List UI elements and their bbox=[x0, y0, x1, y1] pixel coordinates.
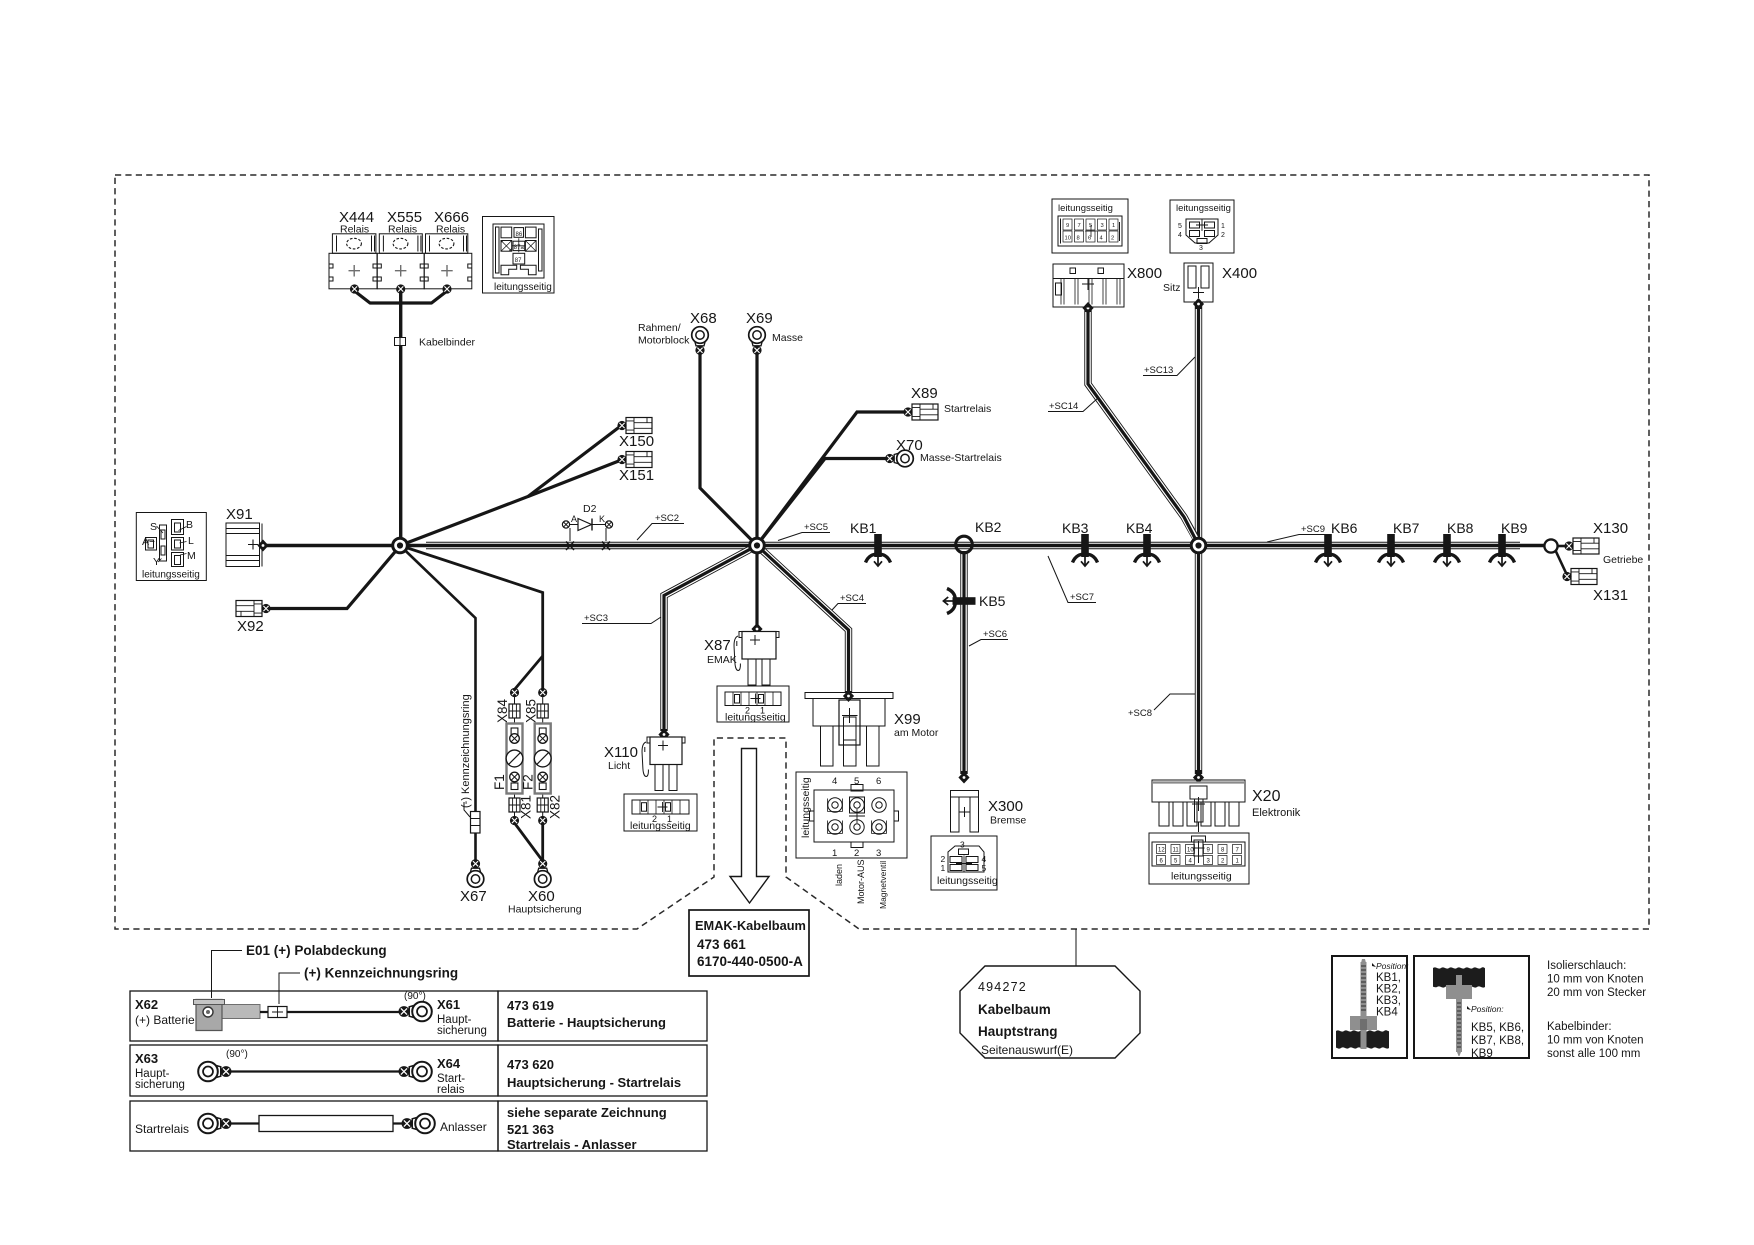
svg-text:5: 5 bbox=[1089, 223, 1092, 229]
svg-text:X84: X84 bbox=[495, 698, 510, 723]
node bolt X85 bbox=[538, 688, 547, 697]
svg-text:leitungsseitig: leitungsseitig bbox=[1058, 203, 1113, 214]
legend leader Kennzeichnungsring bbox=[279, 973, 300, 1004]
relay pinout detail box leitungsseitig bbox=[483, 217, 555, 294]
svg-text:sonst alle 100 mm: sonst alle 100 mm bbox=[1547, 1048, 1640, 1060]
node X130 X131 split bbox=[1544, 539, 1557, 552]
svg-text:(-) Kennzeichnungsring: (-) Kennzeichnungsring bbox=[460, 694, 472, 808]
connector X87 EMAK bbox=[739, 632, 779, 686]
svg-text:A: A bbox=[142, 536, 149, 548]
svg-text:F1: F1 bbox=[492, 774, 507, 790]
svg-text:+SC3: +SC3 bbox=[584, 613, 608, 624]
wire Hauptsicherung-Startrelais bbox=[224, 1070, 405, 1072]
wire X70 to hub bbox=[757, 459, 886, 546]
svg-text:X99: X99 bbox=[894, 711, 921, 728]
svg-text:KB7, KB8,: KB7, KB8, bbox=[1471, 1035, 1524, 1047]
svg-text:Anlasser: Anlasser bbox=[440, 1120, 487, 1134]
svg-text:8: 8 bbox=[1077, 236, 1080, 242]
svg-text:Relais: Relais bbox=[388, 224, 417, 236]
svg-text:leitungsseitig: leitungsseitig bbox=[1176, 203, 1231, 214]
wire branch to X84 bbox=[515, 656, 543, 690]
svg-text:6: 6 bbox=[876, 776, 881, 787]
branch KB3 bbox=[1073, 534, 1098, 566]
svg-text:A: A bbox=[571, 514, 577, 524]
svg-text:Position:: Position: bbox=[1471, 1004, 1504, 1014]
svg-text:Kabelbinder: Kabelbinder bbox=[419, 337, 476, 349]
node bolt X666 bbox=[442, 284, 451, 293]
connector X91 bbox=[226, 523, 262, 567]
connector X150 bbox=[617, 418, 652, 434]
svg-text:EMAK: EMAK bbox=[707, 654, 737, 666]
svg-text:Rahmen/: Rahmen/ bbox=[638, 322, 681, 334]
svg-text:12: 12 bbox=[1158, 848, 1165, 854]
pinout detail box X91 leitungsseitig bbox=[136, 513, 206, 581]
wire X444 to X555 node bbox=[355, 291, 400, 303]
svg-text:10 mm von Knoten: 10 mm von Knoten bbox=[1547, 974, 1644, 986]
svg-text:KB4: KB4 bbox=[1376, 1007, 1398, 1019]
svg-text:3: 3 bbox=[1199, 245, 1203, 252]
svg-text:KB1: KB1 bbox=[850, 520, 877, 536]
ring terminal X60 Hauptsicherung bbox=[534, 859, 551, 887]
svg-text:F2: F2 bbox=[521, 774, 536, 790]
svg-text:Relais: Relais bbox=[340, 224, 369, 236]
svg-text:X63: X63 bbox=[135, 1051, 158, 1066]
connector X400 Sitz bbox=[1184, 263, 1213, 302]
svg-text:20 mm von Stecker: 20 mm von Stecker bbox=[1547, 987, 1646, 999]
connector X130 bbox=[1564, 538, 1599, 554]
svg-text:KB8: KB8 bbox=[1447, 520, 1474, 536]
svg-text:KB7: KB7 bbox=[1393, 520, 1420, 536]
svg-text:KB6: KB6 bbox=[1331, 520, 1358, 536]
svg-text:3: 3 bbox=[960, 840, 965, 850]
sleeve wire hub to X20 +SC8 bbox=[1195, 550, 1202, 774]
svg-text:494272: 494272 bbox=[978, 980, 1027, 994]
ring marker on wire bbox=[260, 1011, 404, 1013]
diode D2 bbox=[562, 519, 612, 551]
connector X300 Bremse bbox=[951, 791, 979, 833]
svg-text:Hauptsicherung: Hauptsicherung bbox=[508, 904, 582, 916]
svg-text:siehe separate Zeichnung: siehe separate Zeichnung bbox=[507, 1105, 667, 1120]
seal clip X110 bbox=[642, 742, 648, 777]
svg-text:473 661: 473 661 bbox=[697, 937, 746, 952]
svg-text:Startrelais - Anlasser: Startrelais - Anlasser bbox=[507, 1137, 637, 1152]
svg-text:9: 9 bbox=[1066, 223, 1069, 229]
svg-text:X85: X85 bbox=[524, 699, 539, 723]
svg-text:+SC5: +SC5 bbox=[804, 522, 828, 533]
svg-text:E01 (+) Polabdeckung: E01 (+) Polabdeckung bbox=[246, 943, 387, 958]
svg-text:S: S bbox=[150, 521, 157, 533]
svg-text:KB3,: KB3, bbox=[1376, 995, 1401, 1007]
connector X20 Elektronik bbox=[1152, 780, 1245, 832]
wire hub to fuse branch bbox=[400, 546, 543, 690]
wire X69 through hub to X87 bbox=[755, 354, 758, 626]
svg-text:leitungsseitig: leitungsseitig bbox=[937, 875, 998, 887]
sleeve wire to X99 +SC4 bbox=[757, 546, 849, 694]
svg-text:K: K bbox=[599, 514, 605, 524]
legend row2 box bbox=[130, 1045, 498, 1096]
branch KB4 bbox=[1135, 534, 1160, 566]
connector X82 bbox=[537, 798, 548, 812]
svg-text:B: B bbox=[186, 519, 193, 531]
connector X99 am Motor bbox=[805, 693, 893, 767]
svg-text:X64: X64 bbox=[437, 1056, 461, 1071]
dashed harness boundary bbox=[115, 175, 1649, 929]
node X87 bbox=[751, 623, 762, 635]
svg-text:Kabelbinder:: Kabelbinder: bbox=[1547, 1021, 1612, 1033]
connector X110 Licht bbox=[647, 737, 685, 791]
battery terminal X62 bbox=[194, 1000, 261, 1031]
connector X800 bbox=[1053, 264, 1124, 307]
svg-text:Elektronik: Elektronik bbox=[1252, 807, 1301, 819]
svg-text:Hauptsicherung - Startrelais: Hauptsicherung - Startrelais bbox=[507, 1075, 681, 1090]
wire Startrelais-Anlasser bbox=[224, 1122, 408, 1124]
svg-text:leitungsseitig: leitungsseitig bbox=[1171, 871, 1232, 883]
svg-text:+SC14: +SC14 bbox=[1049, 401, 1078, 412]
svg-text:KB4: KB4 bbox=[1126, 520, 1153, 536]
node right hub bbox=[1191, 538, 1206, 553]
svg-text:+SC13: +SC13 bbox=[1144, 365, 1173, 376]
pinout detail box X87 leitungsseitig bbox=[717, 686, 789, 722]
node bolt X84 bbox=[510, 688, 519, 697]
pinout detail box X800 leitungsseitig bbox=[1052, 199, 1128, 253]
branch KB5 bbox=[943, 589, 975, 614]
svg-text:Licht: Licht bbox=[608, 760, 630, 772]
svg-text:Y: Y bbox=[153, 556, 160, 568]
sleeve wire to X110 +SC3 bbox=[664, 546, 757, 732]
svg-text:KB2: KB2 bbox=[975, 519, 1002, 535]
svg-text:M: M bbox=[187, 550, 196, 562]
svg-text:Bremse: Bremse bbox=[990, 815, 1026, 827]
svg-text:521 363: 521 363 bbox=[507, 1122, 554, 1137]
svg-text:am Motor: am Motor bbox=[894, 727, 939, 739]
svg-text:X400: X400 bbox=[1222, 265, 1257, 282]
svg-text:D2: D2 bbox=[583, 503, 597, 515]
node KB2 bbox=[956, 536, 973, 553]
svg-text:10: 10 bbox=[1187, 848, 1194, 854]
fuse F2 bbox=[542, 718, 544, 798]
svg-text:2: 2 bbox=[1221, 232, 1225, 239]
svg-text:Isolierschlauch:: Isolierschlauch: bbox=[1547, 960, 1626, 972]
cable tie symbol Kabelbinder bbox=[395, 338, 406, 346]
connector X151 bbox=[617, 452, 652, 468]
wire hub to X67 bbox=[400, 546, 476, 862]
pinout detail box X20 leitungsseitig bbox=[1149, 833, 1249, 884]
svg-text:KB1,: KB1, bbox=[1376, 972, 1401, 984]
svg-text:X81: X81 bbox=[519, 795, 534, 819]
svg-text:X70: X70 bbox=[896, 437, 923, 454]
svg-text:87: 87 bbox=[515, 258, 522, 264]
svg-text:+SC9: +SC9 bbox=[1301, 524, 1325, 535]
wire X89 to hub bbox=[757, 412, 908, 545]
svg-text:X68: X68 bbox=[690, 310, 717, 327]
ring terminal Startrelais bbox=[198, 1114, 231, 1134]
svg-text:sicherung: sicherung bbox=[135, 1079, 185, 1091]
svg-text:6170-440-0500-A: 6170-440-0500-A bbox=[697, 954, 803, 969]
svg-text:Kabelbaum: Kabelbaum bbox=[978, 1002, 1051, 1017]
ring terminal X63 bbox=[198, 1062, 231, 1082]
sleeve wire KB2 to X300 +SC6 bbox=[960, 551, 967, 774]
ring terminal X68 Rahmen/Motorblock bbox=[692, 327, 709, 355]
pinout detail box X300 leitungsseitig bbox=[931, 836, 997, 890]
branch KB6 bbox=[1316, 534, 1341, 566]
node left hub bbox=[393, 538, 408, 553]
note box cable tie position KB1-KB4 bbox=[1332, 956, 1407, 1058]
svg-text:X151: X151 bbox=[619, 467, 654, 484]
svg-text:Magnetventil: Magnetventil bbox=[878, 861, 888, 909]
legend row3 box bbox=[130, 1101, 498, 1151]
connector X131 bbox=[1562, 569, 1597, 585]
node bolt X555 bbox=[396, 284, 405, 293]
wire octagon stem bbox=[1075, 929, 1077, 966]
svg-text:Masse: Masse bbox=[772, 332, 803, 344]
branch KB1 bbox=[866, 534, 891, 566]
node central hub bbox=[750, 538, 765, 553]
svg-text:X60: X60 bbox=[528, 888, 555, 905]
svg-text:5: 5 bbox=[982, 863, 987, 873]
wire relay harness vertical bbox=[399, 291, 402, 546]
svg-text:Relais: Relais bbox=[436, 224, 465, 236]
node bolt X82 bbox=[538, 816, 547, 825]
svg-text:X92: X92 bbox=[237, 618, 264, 635]
ring terminal X61 bbox=[399, 1002, 432, 1022]
svg-text:leitungsseitig: leitungsseitig bbox=[800, 777, 812, 838]
branch KB9 bbox=[1490, 534, 1515, 566]
svg-text:X82: X82 bbox=[548, 795, 563, 819]
svg-text:X110: X110 bbox=[604, 744, 638, 761]
svg-text:KB5, KB6,: KB5, KB6, bbox=[1471, 1022, 1524, 1034]
node X800 bbox=[1082, 302, 1093, 314]
wire X68 to hub bbox=[700, 354, 757, 546]
svg-text:7: 7 bbox=[1078, 223, 1081, 229]
relay X444 bbox=[329, 234, 377, 289]
ring terminal Anlasser bbox=[402, 1114, 435, 1134]
pinout detail box X99 leitungsseitig bbox=[796, 772, 907, 858]
svg-text:(+) Kennzeichnungsring: (+) Kennzeichnungsring bbox=[304, 966, 458, 981]
svg-text:X67: X67 bbox=[460, 888, 487, 905]
svg-text:X20: X20 bbox=[1252, 788, 1281, 805]
ring terminal X69 Masse bbox=[749, 327, 766, 355]
node arrow into X99 bbox=[843, 690, 854, 702]
svg-text:+SC2: +SC2 bbox=[655, 513, 679, 524]
svg-text:Seitenauswurf(E): Seitenauswurf(E) bbox=[981, 1043, 1073, 1057]
svg-text:KB9: KB9 bbox=[1471, 1048, 1493, 1060]
sleeve wire to X800 +SC14 bbox=[1088, 310, 1199, 543]
branch KB8 bbox=[1435, 534, 1460, 566]
svg-text:leitungsseitig: leitungsseitig bbox=[725, 712, 786, 724]
svg-text:(90°): (90°) bbox=[226, 1049, 248, 1060]
svg-text:+SC4: +SC4 bbox=[840, 593, 864, 604]
svg-text:6: 6 bbox=[1088, 236, 1091, 242]
connector X84 bbox=[514, 697, 516, 704]
svg-text:Sitz: Sitz bbox=[1163, 282, 1181, 294]
svg-text:10: 10 bbox=[1065, 236, 1071, 242]
svg-text:1: 1 bbox=[941, 863, 946, 873]
svg-text:KB5: KB5 bbox=[979, 593, 1006, 609]
svg-text:EMAK-Kabelbaum: EMAK-Kabelbaum bbox=[695, 918, 806, 933]
svg-text:X130: X130 bbox=[1593, 520, 1628, 537]
svg-text:leitungsseitig: leitungsseitig bbox=[142, 570, 200, 581]
svg-text:(+) Batterie: (+) Batterie bbox=[135, 1013, 195, 1027]
seal clip X87 bbox=[734, 636, 740, 671]
svg-text:leitungsseitig: leitungsseitig bbox=[630, 820, 691, 832]
svg-text:X61: X61 bbox=[437, 997, 460, 1012]
svg-text:11: 11 bbox=[1173, 848, 1180, 854]
svg-text:KB2,: KB2, bbox=[1376, 984, 1401, 996]
svg-text:1: 1 bbox=[1221, 223, 1225, 230]
connector X92 bbox=[236, 601, 271, 617]
svg-text:4: 4 bbox=[1178, 232, 1182, 239]
svg-text:4: 4 bbox=[832, 776, 837, 787]
svg-text:relais: relais bbox=[437, 1084, 465, 1096]
fuse F1 bbox=[514, 718, 516, 798]
node bolt X81 bbox=[510, 816, 519, 825]
node X91 bbox=[257, 540, 268, 552]
svg-text:Masse-Startrelais: Masse-Startrelais bbox=[920, 452, 1002, 464]
svg-text:leitungsseitig: leitungsseitig bbox=[494, 282, 552, 293]
svg-text:473 619: 473 619 bbox=[507, 998, 554, 1013]
svg-text:X131: X131 bbox=[1593, 587, 1628, 604]
wire hub to X150 X151 bbox=[400, 427, 620, 546]
svg-text:Batterie - Hauptsicherung: Batterie - Hauptsicherung bbox=[507, 1015, 666, 1030]
connector X89 Startrelais bbox=[903, 404, 938, 420]
svg-text:2: 2 bbox=[854, 848, 859, 859]
main bus sleeve +SC2 loom bbox=[426, 542, 1520, 549]
svg-text:Getriebe: Getriebe bbox=[1603, 554, 1643, 566]
node X20 bbox=[1193, 772, 1204, 784]
node X110 bbox=[658, 729, 669, 741]
svg-text:(90°): (90°) bbox=[404, 991, 426, 1002]
svg-text:473 620: 473 620 bbox=[507, 1057, 554, 1072]
svg-text:X300: X300 bbox=[988, 798, 1023, 815]
svg-text:10 mm von Knoten: 10 mm von Knoten bbox=[1547, 1035, 1644, 1047]
relay X666 bbox=[424, 234, 472, 289]
svg-text:+SC7: +SC7 bbox=[1070, 592, 1094, 603]
svg-text:5: 5 bbox=[1178, 223, 1182, 230]
node X300 bbox=[958, 772, 969, 784]
svg-text:+SC8: +SC8 bbox=[1128, 708, 1152, 719]
connector X85 bbox=[542, 697, 544, 704]
legend row1 box bbox=[130, 991, 498, 1041]
wire X81 to X60 bbox=[515, 823, 543, 861]
svg-text:X62: X62 bbox=[135, 997, 158, 1012]
svg-text:X800: X800 bbox=[1127, 265, 1162, 282]
ring terminal X64 bbox=[399, 1062, 432, 1082]
svg-text:1: 1 bbox=[832, 848, 837, 859]
svg-text:Motorblock: Motorblock bbox=[638, 335, 690, 347]
svg-text:+SC6: +SC6 bbox=[983, 629, 1007, 640]
node X400 bbox=[1193, 298, 1204, 310]
svg-text:2: 2 bbox=[1111, 236, 1114, 242]
svg-text:Hauptstrang: Hauptstrang bbox=[978, 1024, 1058, 1039]
svg-text:Startrelais: Startrelais bbox=[944, 403, 991, 415]
svg-text:KB9: KB9 bbox=[1501, 520, 1528, 536]
relay X555 bbox=[377, 234, 424, 289]
pinout detail box X400 leitungsseitig bbox=[1170, 200, 1234, 253]
wire X92 to hub bbox=[267, 546, 400, 609]
ring terminal X67 bbox=[467, 859, 484, 887]
svg-text:laden: laden bbox=[834, 864, 844, 886]
marker Kennzeichnungsring on X67 wire bbox=[471, 812, 481, 834]
legend leader E01 Polabdeckung bbox=[212, 951, 243, 999]
svg-text:Motor-AUS: Motor-AUS bbox=[856, 859, 866, 904]
svg-text:Position:: Position: bbox=[1376, 961, 1409, 971]
svg-text:X150: X150 bbox=[619, 433, 654, 450]
svg-text:X89: X89 bbox=[911, 385, 938, 402]
svg-text:X87: X87 bbox=[704, 637, 731, 654]
callout box EMAK-Kabelbaum bbox=[689, 910, 809, 976]
svg-text:3: 3 bbox=[876, 848, 881, 859]
svg-text:1: 1 bbox=[1112, 223, 1115, 229]
sleeve wire to X400 +SC13 bbox=[1195, 306, 1202, 543]
pinout detail box X110 leitungsseitig bbox=[624, 794, 697, 831]
wire X666 to X555 node bbox=[402, 291, 447, 303]
main bus wire bbox=[262, 544, 1546, 547]
wire X82 to X60 bbox=[541, 823, 544, 861]
svg-text:KB3: KB3 bbox=[1062, 520, 1089, 536]
svg-text:Startrelais: Startrelais bbox=[135, 1122, 189, 1136]
svg-text:86: 86 bbox=[516, 232, 523, 238]
svg-text:3: 3 bbox=[1101, 223, 1104, 229]
wire to X131 bbox=[1556, 551, 1567, 575]
svg-text:X91: X91 bbox=[226, 506, 253, 523]
node bolt X444 bbox=[350, 284, 359, 293]
wire to X130 bbox=[1558, 545, 1568, 548]
svg-text:X69: X69 bbox=[746, 310, 773, 327]
connector X81 bbox=[509, 798, 520, 812]
branch KB7 bbox=[1379, 534, 1404, 566]
note box cable tie position KB5-KB9 bbox=[1414, 956, 1529, 1058]
svg-text:L: L bbox=[188, 535, 194, 547]
callout octagon Kabelbaum Hauptstrang bbox=[960, 966, 1140, 1058]
svg-text:5: 5 bbox=[854, 776, 859, 787]
arrow to EMAK-Kabelbaum bbox=[730, 749, 769, 904]
ring terminal X70 Masse-Startrelais bbox=[885, 450, 913, 467]
svg-text:sicherung: sicherung bbox=[437, 1025, 487, 1037]
